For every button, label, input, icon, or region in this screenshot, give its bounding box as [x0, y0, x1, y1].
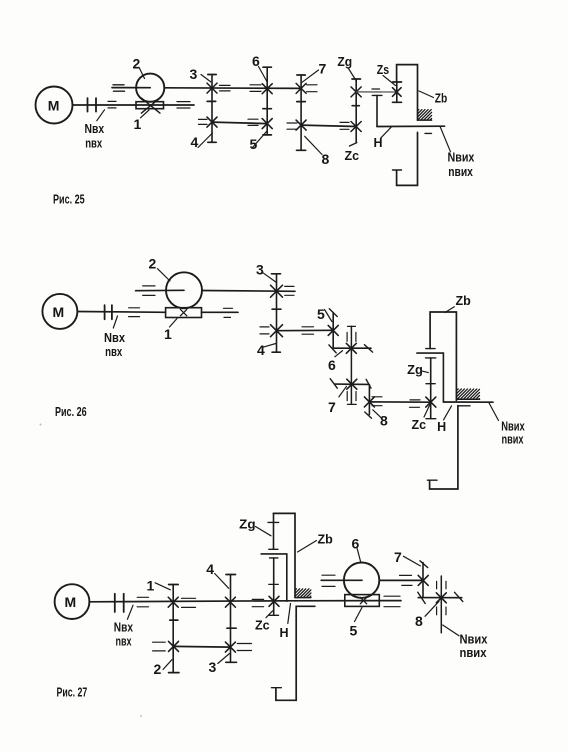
label Zg with leader (diagram 2)	[407, 363, 428, 377]
gear pair 7/8 (diagram 1)	[296, 75, 306, 150]
bearing of satellite on carrier (diagram 1)	[372, 88, 380, 90]
bearing after pulley 1 (diagram 2)	[224, 308, 233, 317]
label H with leader (diagram 3)	[280, 604, 291, 640]
svg-text:Zb: Zb	[456, 294, 472, 308]
wire: input shaft I (diagram 1)	[73, 104, 195, 106]
ring gear Zb lower half (diagram 2)	[427, 406, 470, 489]
label 4 with leader	[191, 133, 213, 150]
svg-text:Nвх: Nвх	[114, 621, 133, 635]
gear 8 (diagram 3)	[418, 592, 463, 603]
satellite gear Zs (diagram 1)	[393, 82, 402, 102]
motor M (diagram 3)	[55, 584, 90, 619]
svg-text:1: 1	[134, 116, 142, 132]
caption Рис. 27	[57, 686, 88, 700]
svg-text:M: M	[65, 594, 77, 610]
svg-text:Nвх: Nвх	[85, 122, 105, 136]
svg-text:Nвих: Nвих	[460, 632, 488, 646]
label Zc with leader (diagram 2)	[412, 405, 430, 432]
label 3 with leader	[190, 66, 212, 82]
gear 6 (diagram 2)	[329, 343, 373, 353]
label 2 with leader (diagram 3)	[154, 660, 172, 677]
label 5 with leader (diagram 2)	[317, 306, 332, 322]
svg-text:1: 1	[147, 578, 155, 594]
caption Рис. 25	[53, 193, 85, 207]
scan speck	[40, 424, 42, 426]
wire: shaft II (diagram 1)	[112, 87, 301, 90]
svg-text:2: 2	[149, 256, 157, 272]
svg-text:Zc: Zc	[255, 619, 270, 633]
label H with leader (diagram 2)	[437, 406, 451, 434]
wire: shaft of pulley 6 (diagram 3)	[321, 579, 423, 581]
belt cross (diagram 1)	[141, 98, 160, 113]
label Nвх / nвх (diagram 1)	[85, 110, 105, 151]
svg-text:4: 4	[191, 134, 199, 150]
bearing left of gear 6	[250, 85, 261, 92]
coupling (diagram 1)	[88, 98, 97, 111]
wire: shaft V to sun gear (diagram 2)	[369, 401, 431, 403]
carrier H (diagram 2)	[417, 353, 444, 402]
ring gear Zb upper half (diagram 2)	[426, 312, 457, 401]
carrier H (diagram 1)	[372, 95, 382, 126]
fixed support hatching of Zb (diagram 1)	[418, 110, 432, 121]
svg-text:4: 4	[206, 561, 214, 577]
caption Рис. 26	[55, 405, 87, 419]
label Nвих / nвих (diagram 2)	[489, 403, 525, 447]
gear pair 3/4 (diagram 2)	[271, 274, 283, 352]
gear pair 4/3 (diagram 3)	[225, 575, 236, 663]
gear 8 (diagram 2)	[364, 379, 374, 418]
label Nвих / nвих (diagram 3)	[443, 625, 488, 660]
wire: shaft III left segment (diagram 1)	[212, 122, 267, 124]
svg-text:M: M	[48, 98, 60, 114]
bearing left of sun gear Zc (diagram 2)	[410, 400, 421, 407]
svg-text:Zc: Zc	[345, 149, 360, 163]
svg-text:2: 2	[154, 661, 162, 677]
wire: shaft I tail (diagram 2)	[202, 311, 239, 313]
gear 5 (diagram 2)	[328, 309, 338, 348]
bearing left of gear 5	[248, 119, 258, 125]
belt pulley 5 (rectangle with cross, diagram 3)	[345, 595, 380, 607]
wire: output shaft (diagram 2)	[443, 401, 493, 403]
label 2 with leader	[133, 56, 145, 79]
bearing left of gear 4 (diagram 2)	[260, 327, 269, 334]
wire: vertical output shaft (diagram 3)	[440, 576, 442, 633]
svg-text:Zb: Zb	[435, 92, 448, 106]
wire: shaft III right segment (diagram 1)	[301, 125, 356, 126]
coupling (diagram 2)	[105, 305, 112, 319]
wire: vertical shaft IV (diagram 2)	[347, 326, 356, 404]
label 3 with leader (diagram 3)	[209, 654, 230, 676]
motor M (diagram 1)	[36, 87, 73, 124]
svg-text:1: 1	[164, 326, 172, 342]
svg-text:Рис. 25: Рис. 25	[53, 193, 85, 207]
svg-text:H: H	[280, 626, 289, 640]
belt pulley 2 (circle, diagram 2)	[166, 272, 202, 308]
gear pair 3/4 (diagram 1)	[207, 75, 217, 143]
svg-text:7: 7	[319, 61, 327, 77]
svg-text:Рис. 27: Рис. 27	[57, 686, 88, 700]
svg-text:H: H	[437, 420, 446, 434]
label 2 with leader (diagram 2)	[149, 256, 171, 282]
wire: output shaft (diagram 1)	[377, 125, 445, 127]
svg-text:nвх: nвх	[85, 137, 102, 151]
bearing at left end of pulley-6 shaft (diagram 3)	[322, 575, 335, 586]
wire: shaft III (diagram 2)	[277, 329, 334, 331]
label 1 with leader (diagram 2)	[164, 319, 177, 343]
svg-text:3: 3	[256, 262, 264, 278]
bearing upper on output shaft (diagram 3)	[437, 581, 446, 589]
label 6 with leader	[252, 53, 267, 82]
svg-text:Nвих: Nвих	[501, 419, 525, 433]
svg-text:Zg: Zg	[239, 517, 255, 531]
svg-text:3: 3	[209, 659, 217, 675]
bearing left of gear 4	[199, 119, 208, 124]
belt pulley 2 (circle, diagram 1)	[136, 74, 164, 102]
gear pair 1/2 (diagram 3)	[168, 585, 179, 673]
wire: lower shaft (diagram 3)	[174, 645, 231, 648]
label Zs with leader	[377, 63, 396, 86]
label 4 with leader (diagram 2)	[257, 342, 276, 358]
svg-text:Zg: Zg	[407, 363, 423, 377]
svg-text:nвих: nвих	[448, 165, 473, 179]
svg-text:Zb: Zb	[318, 533, 334, 547]
belt pulley 1 (rectangle, diagram 1)	[136, 102, 164, 109]
svg-text:7: 7	[394, 549, 402, 565]
label 8 with leader (diagram 3)	[415, 601, 439, 629]
svg-text:6: 6	[352, 536, 360, 552]
motor M (diagram 2)	[42, 294, 77, 329]
bearing right of gear 7	[307, 85, 318, 92]
svg-text:Рис. 26: Рис. 26	[55, 405, 87, 419]
bearing right of gear 8 (diagram 2)	[372, 397, 382, 406]
bearing left of sun gear Zc (diagram 1)	[340, 122, 349, 129]
ring gear Zb upper half (diagram 3)	[273, 513, 295, 597]
label Nвх / nвх (diagram 2)	[104, 316, 125, 359]
bearing right of gear 3 (diagram 2)	[285, 286, 294, 295]
label Zb with leader (diagram 2)	[445, 294, 471, 313]
bearing left of gear 7 (diagram 3)	[400, 575, 413, 585]
gear 7 (diagram 2)	[330, 379, 368, 390]
svg-text:M: M	[53, 304, 65, 320]
bearing on shaft I after pulley 1	[177, 102, 190, 108]
ring gear Zb upper half (diagram 1)	[397, 65, 418, 121]
bearing right of gear 1 (diagram 3)	[182, 598, 196, 607]
svg-text:3: 3	[190, 66, 198, 82]
label 3 with leader (diagram 2)	[256, 262, 276, 283]
label Zg with leader	[337, 55, 356, 81]
svg-text:nвх: nвх	[116, 635, 132, 649]
label H with leader	[374, 127, 392, 151]
label 5 with leader	[250, 132, 267, 153]
bearing left of gear 8	[287, 123, 297, 129]
satellite gear Zg segment (diagram 3)	[268, 513, 279, 549]
svg-text:nвих: nвих	[502, 432, 524, 446]
label Zc (diagram 1)	[345, 149, 360, 163]
label Nвих / nвих (diagram 1)	[440, 126, 474, 179]
label 5 with leader (diagram 3)	[350, 608, 363, 639]
bearing lower on vertical shaft (diagram 2)	[347, 392, 356, 401]
label 4 with leader (diagram 3)	[206, 561, 228, 588]
svg-text:nвих: nвих	[460, 646, 487, 660]
label 7 with leader (diagram 3)	[394, 549, 420, 566]
bearing left of gear 2 (diagram 3)	[153, 642, 166, 651]
svg-text:8: 8	[322, 151, 330, 167]
label 6 with leader (diagram 3)	[352, 536, 361, 562]
wire: input shaft I (diagram 2)	[77, 311, 165, 314]
label 8 with leader (diagram 2)	[373, 410, 388, 429]
bearing after pulley 5 (diagram 3)	[384, 596, 400, 607]
svg-text:Zc: Zc	[412, 418, 427, 432]
bearing after coupling (diagram 3)	[137, 597, 148, 607]
svg-text:4: 4	[257, 342, 265, 358]
coupling (diagram 3)	[115, 594, 124, 612]
bearing right of gear 3 (diagram 3)	[237, 644, 251, 651]
label 1 with leader	[134, 110, 150, 132]
sun gear Zc line (diagram 3)	[269, 558, 279, 615]
svg-text:8: 8	[415, 613, 423, 629]
gear pair 6/5 (diagram 1)	[262, 67, 272, 135]
bearing left of sun gear Zc (diagram 3)	[252, 599, 263, 606]
svg-text:Nвх: Nвх	[104, 331, 125, 345]
label 6 with leader (diagram 2)	[328, 351, 343, 373]
label Nвх / nвх (diagram 3)	[114, 605, 133, 648]
fixed support hatching of Zb (diagram 2)	[457, 389, 480, 399]
bearing on shaft III (diagram 2)	[302, 327, 314, 334]
svg-text:nвх: nвх	[105, 345, 122, 359]
gear 7 (diagram 3)	[418, 561, 428, 598]
wire: shaft II (diagram 2)	[136, 290, 295, 291]
bearing at left end of shaft II	[113, 85, 125, 91]
label Zb with leader (diagram 3)	[298, 533, 334, 553]
bearing at left end of shaft II (diagram 2)	[143, 286, 155, 296]
label 1 with leader (diagram 3)	[147, 578, 171, 594]
bearing lower on output shaft (diagram 3)	[437, 607, 446, 615]
svg-text:Nвих: Nвих	[448, 150, 475, 164]
bearing on shaft I (diagram 2)	[129, 308, 140, 317]
fixed support hatching of Zb (diagram 3)	[295, 589, 311, 598]
svg-text:Zs: Zs	[377, 63, 389, 77]
gear pair Zg/Zc (diagram 1)	[350, 79, 362, 146]
gear pair Zc/Zg (diagram 2)	[426, 358, 436, 419]
svg-text:8: 8	[380, 413, 388, 429]
label Zb with leader	[419, 91, 448, 106]
svg-text:7: 7	[328, 399, 336, 415]
belt pulley 1 (rectangle with cross, diagram 2)	[166, 308, 202, 318]
ring gear Zb lower half (diagram 3)	[272, 606, 315, 700]
ring gear Zb lower half (diagram 1)	[393, 132, 432, 185]
svg-text:5: 5	[350, 623, 358, 639]
belt pulley 6 (circle, diagram 3)	[344, 563, 379, 598]
bearing right of gear 3	[220, 85, 231, 91]
svg-text:6: 6	[328, 357, 336, 373]
scan speck	[140, 715, 142, 717]
bearing upper on vertical shaft (diagram 2)	[347, 332, 356, 341]
carrier H (diagram 3)	[261, 554, 287, 601]
label 7 with leader	[302, 61, 327, 83]
bearing on shaft I before pulley 1	[108, 101, 116, 108]
label 7 with leader (diagram 2)	[328, 386, 347, 415]
wire: satellite axle (diagram 1)	[356, 91, 397, 93]
svg-text:5: 5	[317, 306, 325, 322]
label 8 with leader	[305, 136, 330, 167]
svg-text:Zg: Zg	[337, 55, 352, 69]
label Zc with leader (diagram 3)	[255, 611, 273, 633]
wire: main shaft (diagram 3)	[89, 601, 401, 602]
label Zg with leader (diagram 3)	[239, 517, 271, 535]
